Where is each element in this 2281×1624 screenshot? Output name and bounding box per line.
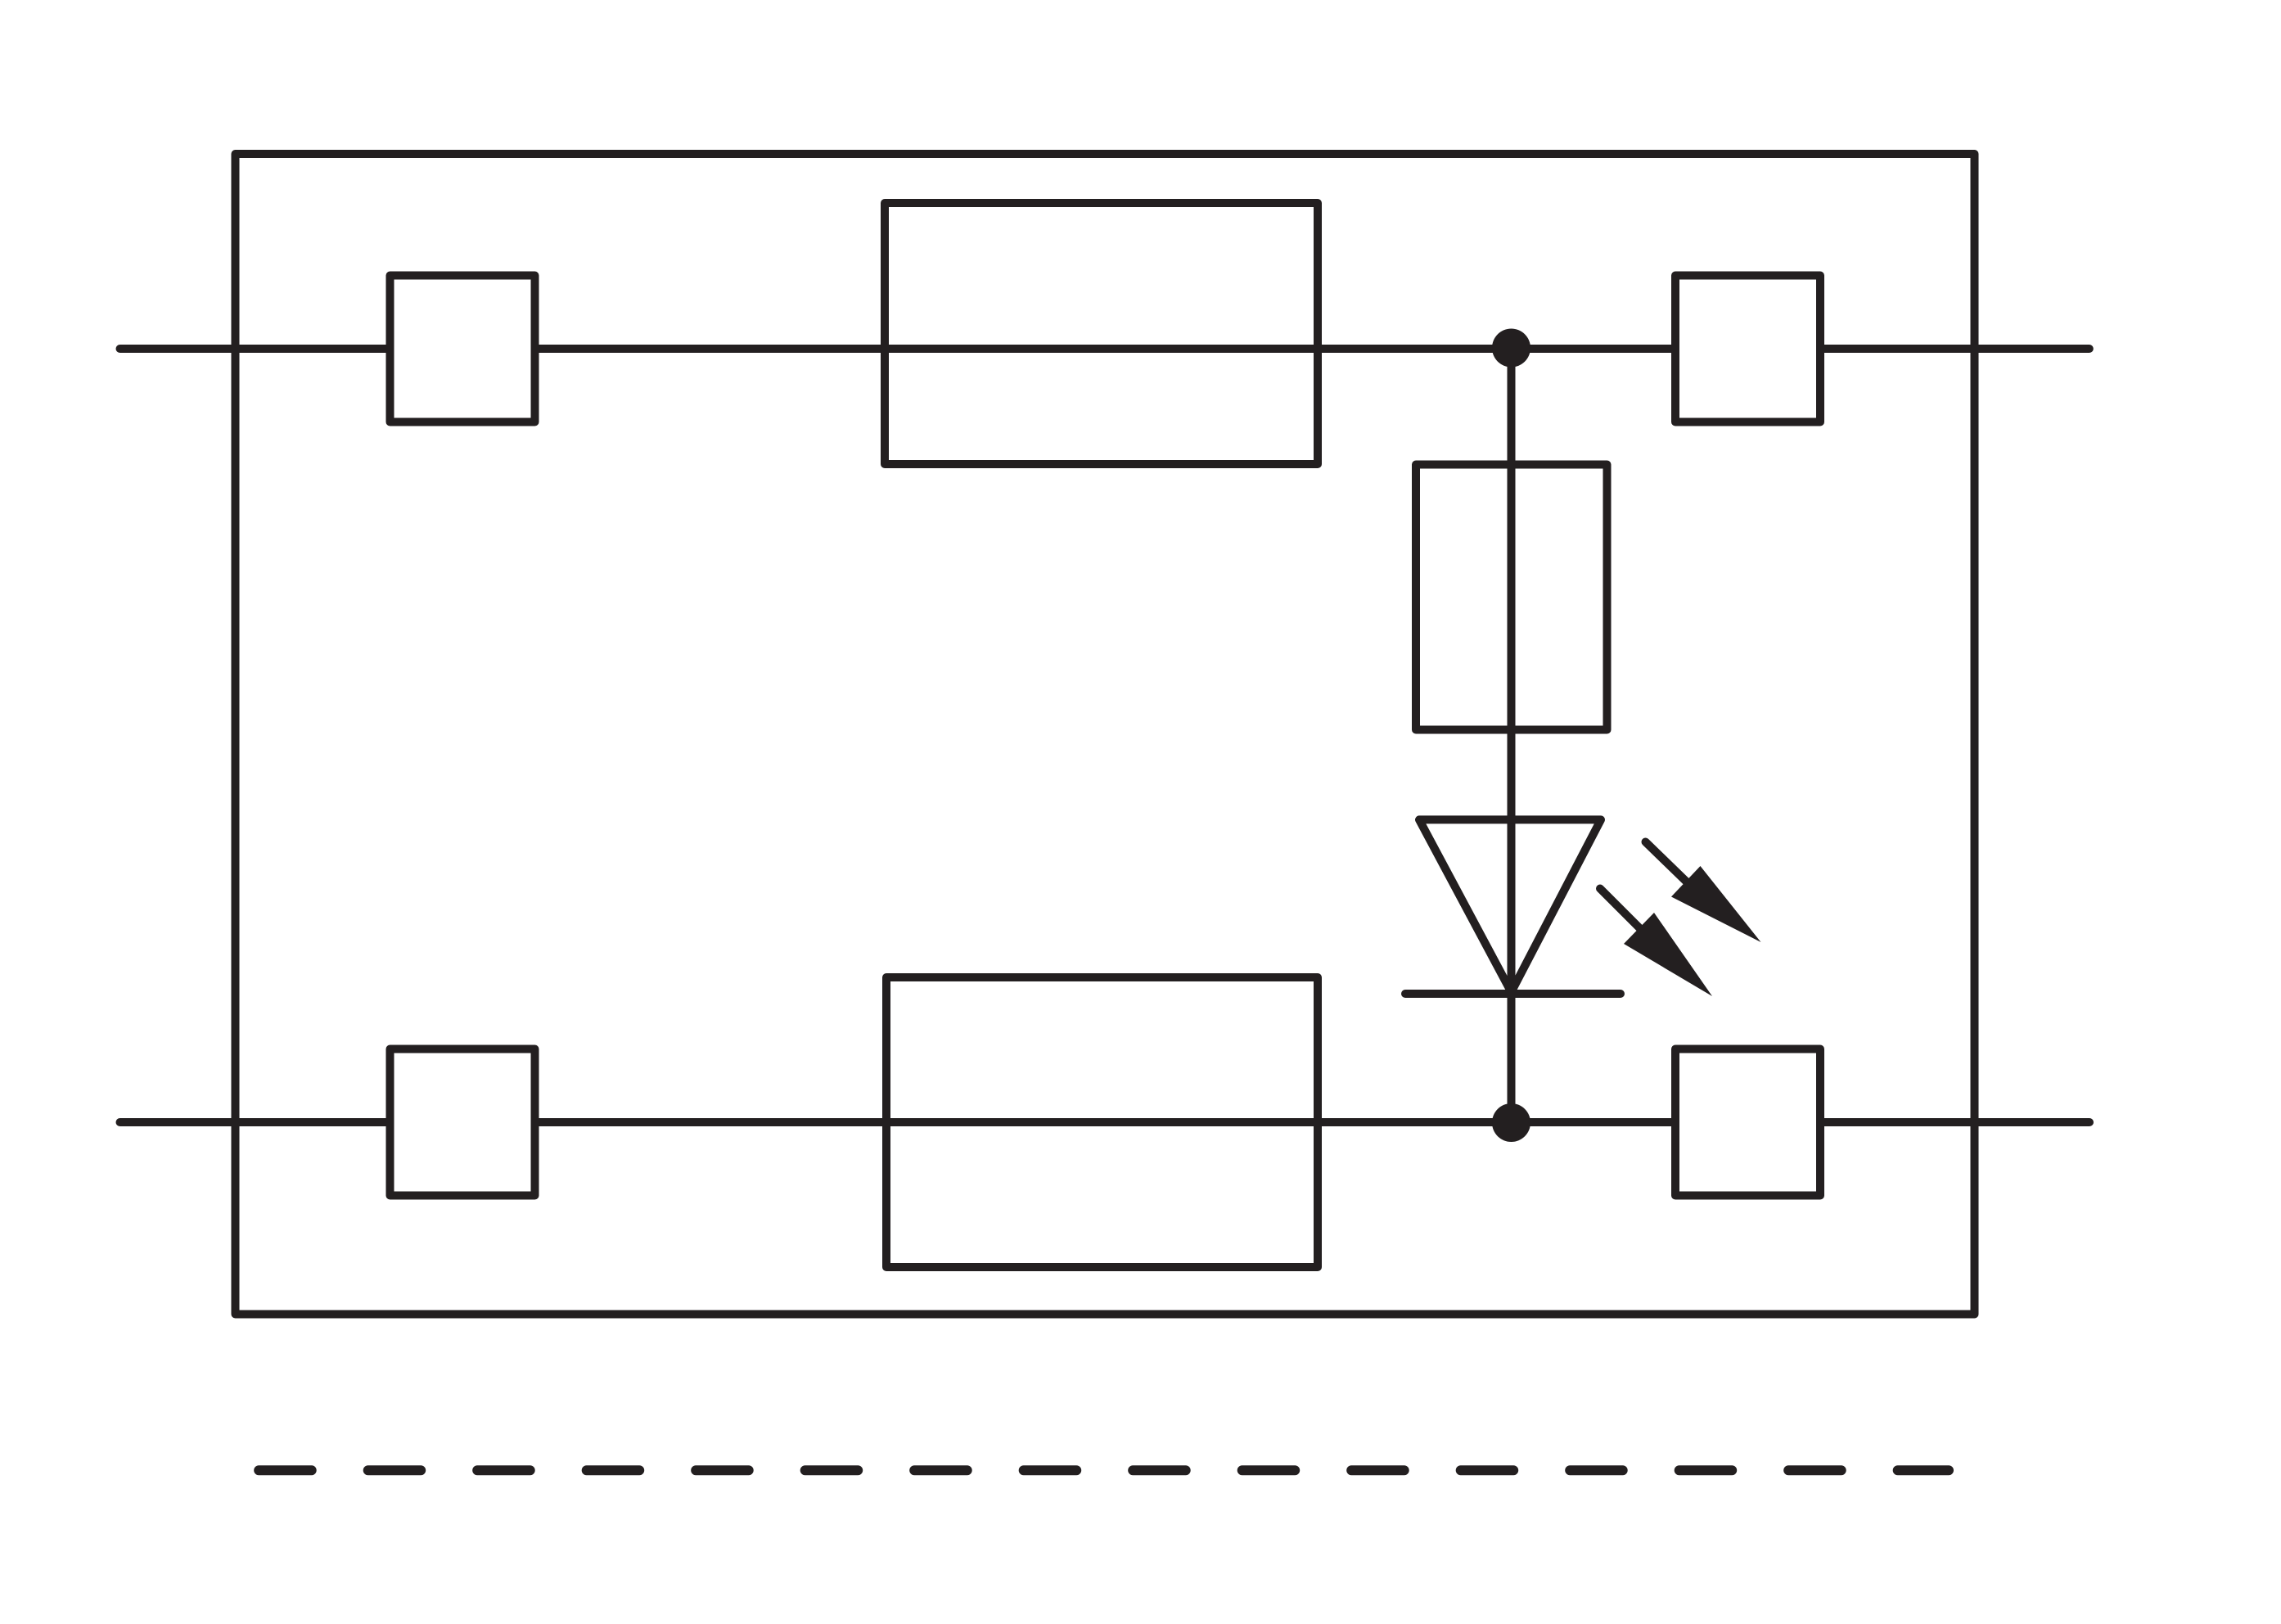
terminal block housing outline	[236, 154, 1975, 1315]
node A junction dot top	[1492, 329, 1530, 368]
resistor R1	[1416, 465, 1607, 730]
clamp contact top-left	[390, 276, 535, 422]
clamp contact bottom-left	[390, 1049, 535, 1196]
LED D1 triangle	[1419, 819, 1601, 992]
wire top conductor	[120, 345, 2089, 353]
clamp contact bottom-right	[1675, 1049, 1820, 1196]
LED emission arrow upper	[1646, 842, 1761, 943]
clamp contact top-right	[1675, 276, 1820, 422]
wire vertical branch from node A to node B	[1508, 349, 1516, 1122]
LED emission arrow lower	[1600, 889, 1712, 997]
fuse F1 top	[885, 203, 1318, 464]
node B junction dot bottom	[1492, 1103, 1530, 1142]
wire bottom conductor	[120, 1118, 2090, 1126]
LED D1 cathode bar	[1405, 990, 1621, 998]
DIN rail dashed line	[259, 1465, 1949, 1475]
fuse F2 bottom	[886, 977, 1318, 1267]
